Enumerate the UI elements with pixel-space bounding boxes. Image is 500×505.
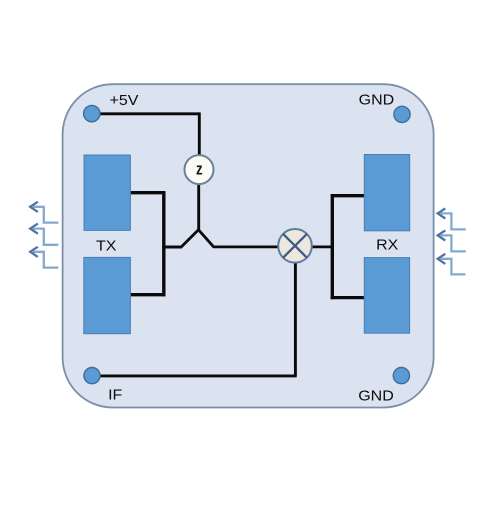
- pin IF: [84, 368, 100, 384]
- wire mixer to RX bus: [312, 245, 334, 248]
- TX wave arrow 3: [30, 247, 58, 268]
- board outline: [63, 84, 434, 407]
- antenna patch RX top: [364, 155, 409, 231]
- wire TX bus: [162, 191, 165, 296]
- wire RX bottom feed: [331, 296, 365, 299]
- wire TX mid stub: [162, 246, 182, 249]
- RX wave arrow 3: [438, 254, 466, 275]
- wire RX bus: [331, 194, 334, 299]
- TX wave arrow 2: [30, 224, 58, 245]
- mixer: [278, 229, 312, 263]
- svg-text:GND: GND: [359, 92, 395, 108]
- wire Y splitter left diagonal: [181, 230, 198, 247]
- wire IF horizontal: [100, 374, 297, 377]
- wire oscillator to Y-junction: [197, 184, 200, 230]
- wire +5V horizontal: [100, 112, 200, 115]
- wire RX top feed: [331, 194, 365, 197]
- svg-text:+5V: +5V: [110, 93, 140, 109]
- wire TX top feed: [130, 191, 165, 194]
- wire mixer output down: [294, 262, 297, 376]
- svg-text:z: z: [196, 160, 203, 179]
- pin +5V: [84, 105, 100, 121]
- svg-text:TX: TX: [96, 238, 116, 254]
- antenna patch TX top: [84, 155, 130, 230]
- RX wave arrow 1: [438, 208, 466, 229]
- svg-text:GND: GND: [358, 388, 394, 404]
- svg-text:IF: IF: [108, 387, 122, 403]
- TX wave arrow 1: [30, 202, 58, 223]
- wire Y to mixer: [213, 245, 279, 248]
- wire TX bottom feed: [130, 293, 165, 296]
- RX wave arrow 2: [438, 230, 466, 251]
- svg-text:RX: RX: [376, 237, 398, 253]
- pin GND top-right: [394, 106, 410, 122]
- antenna patch TX bottom: [84, 257, 131, 333]
- oscillator Z: [185, 155, 214, 184]
- antenna patch RX bottom: [364, 258, 409, 334]
- wire +5V vertical to oscillator: [198, 112, 201, 155]
- wire Y splitter right diagonal: [199, 230, 214, 247]
- pin GND bottom-right: [393, 368, 409, 384]
